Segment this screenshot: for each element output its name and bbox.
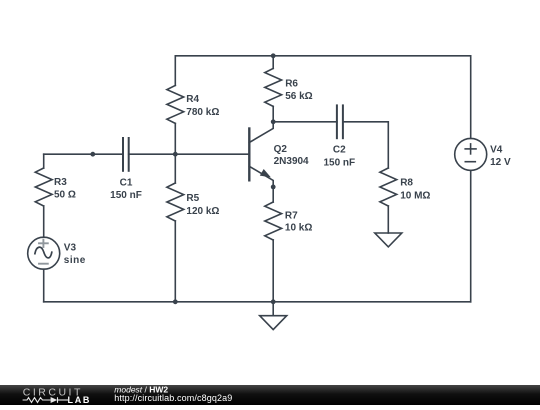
svg-text:Q2: Q2 bbox=[274, 144, 288, 155]
resistor R4 bbox=[167, 85, 184, 123]
svg-text:10 kΩ: 10 kΩ bbox=[285, 222, 312, 233]
wire C1 to base bbox=[129, 153, 250, 155]
svg-text:56 kΩ: 56 kΩ bbox=[285, 91, 312, 102]
label R7 bbox=[285, 210, 312, 233]
wire R6 bottom to collector node bbox=[272, 106, 274, 121]
svg-text:sine: sine bbox=[64, 255, 86, 266]
wire R5 bottom vertical bbox=[174, 221, 176, 302]
logo resistor diode symbol bbox=[23, 397, 68, 403]
svg-text:10 MΩ: 10 MΩ bbox=[400, 190, 430, 201]
capacitor C2 bbox=[337, 105, 343, 138]
label V3 bbox=[64, 242, 86, 266]
wire V3 bottom bbox=[43, 269, 45, 302]
wire C2 to R8 bbox=[343, 122, 388, 168]
svg-text:R6: R6 bbox=[285, 78, 298, 89]
svg-text:12 V: 12 V bbox=[490, 157, 511, 168]
wire V4 top vertical bbox=[470, 56, 472, 139]
svg-text:http://circuitlab.com/c8gq2a9: http://circuitlab.com/c8gq2a9 bbox=[114, 393, 232, 403]
transistor Q2 emitter lead bbox=[249, 166, 273, 187]
wire top rail bbox=[175, 55, 470, 57]
ground below R8 bbox=[375, 233, 402, 247]
resistor R7 bbox=[265, 202, 282, 240]
svg-text:V3: V3 bbox=[64, 242, 77, 253]
label R3 bbox=[54, 177, 76, 201]
svg-text:120 kΩ: 120 kΩ bbox=[186, 206, 219, 217]
node collector bbox=[271, 119, 276, 124]
svg-text:R4: R4 bbox=[186, 94, 199, 105]
resistor R5 bbox=[167, 183, 184, 221]
node R7 bottom rail bbox=[271, 299, 276, 304]
label R4 bbox=[186, 94, 219, 118]
wire R6 top vertical bbox=[272, 56, 274, 69]
label C1 bbox=[110, 178, 142, 201]
svg-text:150 nF: 150 nF bbox=[323, 157, 355, 168]
svg-text:2N3904: 2N3904 bbox=[274, 156, 309, 167]
wire R7 bottom vertical bbox=[272, 240, 274, 302]
label V4 bbox=[490, 145, 511, 168]
wire R8 bottom to ground bbox=[387, 206, 389, 233]
node base junction bbox=[173, 152, 178, 157]
footer bar bbox=[0, 385, 540, 405]
svg-text:780 kΩ: 780 kΩ bbox=[186, 107, 219, 118]
wire left rail R3 top bbox=[43, 154, 45, 168]
label R6 bbox=[285, 78, 312, 102]
node R3 C1 bbox=[90, 152, 95, 157]
wire ground stub bottom rail bbox=[272, 302, 274, 316]
wire collector node to C2 bbox=[273, 121, 337, 123]
label R5 bbox=[186, 193, 219, 217]
wire left rail top horizontal bbox=[44, 153, 123, 155]
capacitor C1 bbox=[123, 138, 129, 171]
transistor Q2 collector lead bbox=[249, 122, 273, 143]
resistor R6 bbox=[265, 68, 282, 106]
transistor Q2 base bar bbox=[248, 129, 250, 181]
label R8 bbox=[400, 178, 430, 202]
label C2 bbox=[323, 145, 355, 169]
svg-text:C2: C2 bbox=[333, 145, 346, 156]
wire R3 bottom to V3 bbox=[43, 206, 45, 237]
svg-text:50 Ω: 50 Ω bbox=[54, 190, 76, 201]
wire R4 top vertical bbox=[174, 56, 176, 86]
svg-text:150 nF: 150 nF bbox=[110, 190, 142, 201]
voltage source V4 bbox=[455, 138, 487, 170]
voltage source V3 bbox=[28, 237, 60, 269]
resistor R8 bbox=[380, 168, 397, 206]
svg-text:R7: R7 bbox=[285, 210, 298, 221]
node top rail R6 junction bbox=[271, 53, 276, 58]
wire R4 bottom to base node bbox=[174, 123, 176, 154]
svg-text:R3: R3 bbox=[54, 177, 67, 188]
svg-text:R8: R8 bbox=[400, 178, 413, 189]
svg-text:R5: R5 bbox=[186, 193, 199, 204]
svg-text:C1: C1 bbox=[120, 178, 133, 189]
wire R5 top from base node bbox=[174, 154, 176, 183]
wire bottom rail bbox=[44, 301, 471, 303]
wire V4 bottom vertical bbox=[470, 170, 472, 301]
svg-text:LAB: LAB bbox=[68, 395, 92, 405]
label Q2 bbox=[274, 144, 309, 167]
wire emitter node to R7 bbox=[272, 187, 274, 202]
svg-text:V4: V4 bbox=[490, 145, 503, 156]
node emitter bbox=[271, 185, 276, 190]
node R5 bottom rail bbox=[173, 299, 178, 304]
resistor R3 bbox=[35, 168, 52, 206]
ground below bottom rail bbox=[260, 316, 287, 330]
transistor Q2 emitter arrow bbox=[260, 169, 271, 177]
